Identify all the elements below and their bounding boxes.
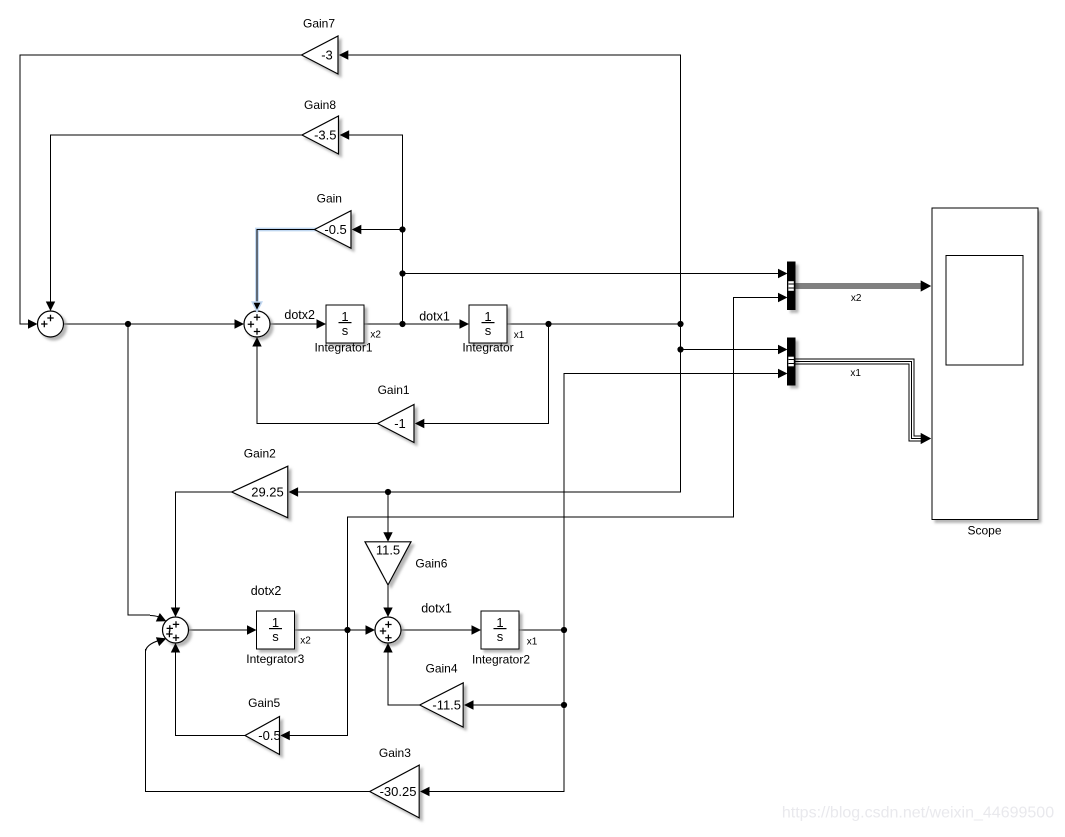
svg-text:s: s (497, 629, 504, 644)
svg-text:x1: x1 (850, 368, 861, 379)
svg-text:Scope: Scope (967, 524, 1001, 538)
svg-text:dotx1: dotx1 (419, 310, 450, 324)
svg-text:Integrator: Integrator (462, 341, 513, 355)
svg-text:Integrator2: Integrator2 (472, 653, 530, 667)
svg-text:x1: x1 (514, 330, 525, 341)
svg-text:1: 1 (341, 309, 348, 324)
svg-text:Gain6: Gain6 (415, 557, 447, 571)
svg-text:Integrator3: Integrator3 (246, 652, 304, 666)
svg-text:dotx1: dotx1 (421, 602, 452, 616)
svg-text:-0.5: -0.5 (258, 728, 280, 743)
svg-text:Gain5: Gain5 (248, 696, 280, 710)
svg-text:Gain8: Gain8 (304, 98, 336, 112)
svg-text:-3.5: -3.5 (314, 127, 336, 142)
svg-text:s: s (342, 323, 349, 338)
svg-text:1: 1 (496, 615, 503, 630)
svg-text:Gain4: Gain4 (425, 662, 457, 676)
svg-text:x1: x1 (527, 637, 538, 648)
svg-text:-1: -1 (394, 416, 406, 431)
svg-text:-3: -3 (321, 47, 333, 62)
svg-text:-11.5: -11.5 (432, 697, 461, 712)
svg-text:s: s (485, 323, 492, 338)
svg-text:Gain2: Gain2 (244, 447, 276, 461)
svg-text:-30.25: -30.25 (380, 784, 417, 799)
svg-text:Gain1: Gain1 (378, 383, 410, 397)
svg-text:1: 1 (272, 615, 279, 630)
svg-text:s: s (272, 629, 279, 644)
svg-text:dotx2: dotx2 (284, 308, 315, 322)
svg-text:1: 1 (484, 309, 491, 324)
svg-text:x2: x2 (370, 330, 381, 341)
svg-text:dotx2: dotx2 (251, 584, 282, 598)
svg-text:Gain3: Gain3 (379, 746, 411, 760)
svg-text:Gain: Gain (317, 192, 342, 206)
svg-text:11.5: 11.5 (376, 543, 400, 558)
svg-text:https://blog.csdn.net/weixin_4: https://blog.csdn.net/weixin_44699500 (782, 805, 1054, 822)
svg-text:x2: x2 (851, 293, 862, 304)
svg-text:29.25: 29.25 (251, 484, 284, 499)
svg-text:Gain7: Gain7 (303, 17, 335, 31)
svg-text:Integrator1: Integrator1 (314, 341, 372, 355)
svg-text:-0.5: -0.5 (324, 222, 346, 237)
svg-text:x2: x2 (300, 635, 311, 646)
